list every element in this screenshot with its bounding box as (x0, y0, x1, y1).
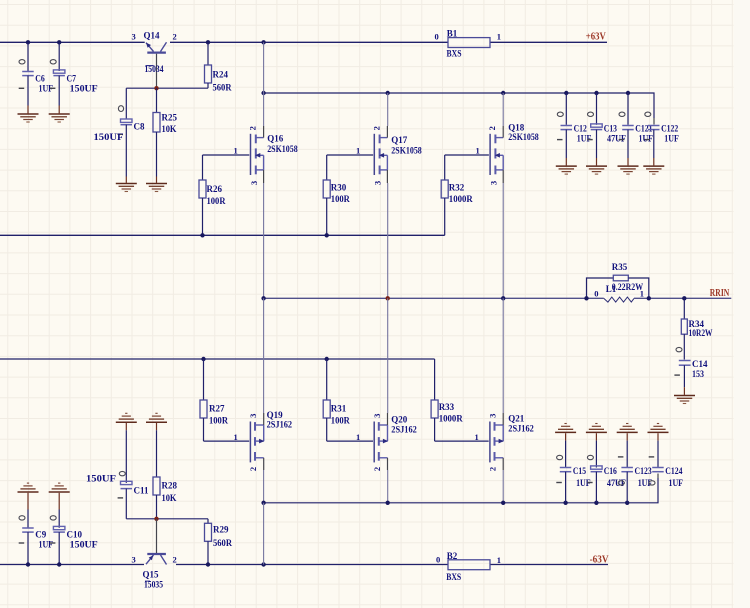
svg-text:2: 2 (173, 32, 177, 42)
svg-text:3: 3 (248, 414, 258, 418)
capacitor C7 (50, 42, 98, 105)
svg-text:C11: C11 (134, 486, 150, 496)
svg-text:3: 3 (488, 181, 498, 185)
svg-text:R24: R24 (213, 70, 229, 80)
junction R29 / bottom rail (206, 562, 210, 566)
wire output rail to Q19 source (263, 298, 265, 413)
B1 pin 0 (435, 32, 439, 42)
resistor R25 (153, 88, 177, 176)
resistor R28 (153, 430, 177, 519)
svg-text:47UF: 47UF (607, 478, 626, 488)
svg-text:Q21: Q21 (508, 414, 525, 424)
svg-text:1UF: 1UF (39, 539, 54, 549)
fuse B2 (446, 551, 490, 582)
svg-text:1000R: 1000R (449, 194, 473, 204)
ground R25 (146, 177, 167, 192)
Q18 pin 3 (488, 181, 498, 185)
ground C11 (116, 413, 137, 430)
wire Q16 source to output rail (263, 183, 265, 298)
wire bottom rail -63V right segment (490, 564, 608, 566)
svg-text:2SJ162: 2SJ162 (508, 424, 534, 434)
svg-text:100R: 100R (331, 416, 350, 426)
ground C15 (555, 424, 576, 441)
B1 pin 1 (497, 32, 501, 42)
ground C124 (648, 424, 669, 441)
junction C12 / rail (564, 91, 568, 95)
svg-text:C123: C123 (635, 466, 653, 476)
svg-text:3: 3 (249, 181, 259, 185)
svg-text:2: 2 (248, 126, 258, 130)
svg-text:1UF: 1UF (669, 478, 684, 488)
svg-text:3: 3 (372, 414, 382, 418)
capacitor C124 (649, 441, 684, 488)
svg-text:3: 3 (373, 181, 383, 185)
junction Q15 base / R28 / C11 (154, 517, 158, 521)
ground C8 (116, 177, 137, 192)
Q16 pin 1 (234, 146, 238, 156)
svg-text:R29: R29 (213, 525, 229, 535)
junction R34 / output rail (682, 296, 686, 300)
capacitor C13 (587, 93, 626, 165)
svg-text:Q14: Q14 (144, 31, 161, 41)
Q18 pin 1 (476, 146, 480, 156)
L1 pin 1 (640, 289, 644, 299)
svg-text:2SK1058: 2SK1058 (267, 144, 298, 154)
junction R30 / gate rail (325, 233, 329, 237)
svg-text:C9: C9 (35, 529, 46, 539)
wire Q17 source to output rail (387, 183, 389, 298)
svg-text:RRIN: RRIN (710, 288, 730, 299)
capacitor C123 (618, 441, 653, 503)
wire output rail to Q21 source (502, 298, 504, 413)
svg-text:R30: R30 (331, 182, 347, 192)
svg-text:560R: 560R (213, 538, 232, 548)
L1 pin 0 (594, 288, 598, 298)
wire top rail +63V middle segment (170, 41, 448, 43)
svg-text:2: 2 (488, 467, 498, 471)
svg-text:560R: 560R (213, 82, 232, 92)
MOSFET Q19 (250, 410, 292, 470)
Q19 pin 1 (234, 432, 238, 442)
ground C10 (49, 483, 70, 509)
capacitor C15 (556, 441, 591, 503)
Q20 pin 2 (372, 467, 382, 471)
svg-text:BXS: BXS (447, 49, 462, 59)
wire lower gate bias rail (0, 358, 435, 360)
wire +63V column (263, 42, 265, 93)
svg-text:1: 1 (497, 555, 501, 565)
resistor R27 (200, 359, 228, 441)
ground C13 (586, 166, 607, 174)
svg-text:C13: C13 (604, 123, 618, 133)
svg-text:47UF: 47UF (607, 133, 626, 143)
svg-text:1: 1 (234, 146, 238, 156)
ground C12 (556, 166, 577, 174)
Q17 pin 3 (373, 181, 383, 185)
Q14 pin 2 (173, 32, 177, 42)
wire +63V distribution rail (264, 93, 654, 125)
svg-text:153: 153 (692, 369, 704, 379)
resistor R32 (441, 155, 473, 235)
svg-text:2: 2 (173, 555, 177, 565)
junction C6 / top rail (26, 40, 30, 44)
capacitor C10 (50, 510, 98, 565)
ground C123 (617, 424, 638, 441)
svg-text:C14: C14 (692, 359, 708, 369)
Q20 pin 3 (372, 414, 382, 418)
junction Q18 source / output rail (501, 296, 505, 300)
svg-text:150UF: 150UF (94, 132, 125, 142)
svg-text:1UF: 1UF (638, 478, 653, 488)
Q17 pin 2 (371, 126, 381, 130)
svg-text:Q20: Q20 (391, 415, 408, 425)
svg-text:0.22R2W: 0.22R2W (612, 282, 643, 292)
resistor R24 (205, 42, 232, 92)
Q21 pin 3 (488, 414, 498, 418)
junction C9 / bottom rail (26, 562, 30, 566)
svg-text:0: 0 (435, 32, 439, 42)
Q15 pin 3 (132, 555, 136, 565)
ground C122 (643, 166, 664, 174)
svg-text:2SK1058: 2SK1058 (508, 132, 539, 142)
svg-text:1: 1 (497, 32, 501, 42)
wire Q18 source to output rail (502, 183, 504, 298)
Q19 pin 2 (248, 467, 258, 471)
junction top rail / +63V column (261, 40, 265, 44)
fuse B1 (447, 29, 491, 59)
MOSFET Q18 (490, 122, 539, 183)
junction C15 / rail (563, 501, 567, 505)
svg-text:10K: 10K (162, 124, 177, 134)
junction R35 left / output rail (584, 296, 588, 300)
svg-text:Q15: Q15 (143, 570, 160, 580)
svg-text:R32: R32 (449, 182, 465, 192)
junction -63V column / bottom rail (261, 562, 265, 566)
svg-text:2: 2 (487, 126, 497, 130)
junction C121 / rail (626, 91, 630, 95)
svg-text:C16: C16 (604, 466, 618, 476)
svg-text:C15: C15 (573, 466, 587, 476)
svg-text:0: 0 (594, 288, 598, 298)
svg-text:1: 1 (356, 146, 360, 156)
junction Q17 drain / rail (386, 91, 390, 95)
svg-text:2: 2 (372, 467, 382, 471)
resistor R35 (587, 262, 649, 298)
capacitor C9 (19, 510, 54, 565)
svg-text:1: 1 (356, 432, 360, 442)
junction R24 / top rail (206, 40, 210, 44)
svg-text:Q17: Q17 (391, 135, 408, 145)
svg-text:1UF: 1UF (664, 133, 679, 143)
Q16 pin 3 (249, 181, 259, 185)
resistor R33 (431, 359, 463, 441)
wire upper gate bias rail (0, 234, 445, 236)
ground R28 (146, 413, 167, 430)
junction Q19 drain / rail (261, 501, 265, 505)
junction Q20 drain / rail (386, 501, 390, 505)
svg-text:Q18: Q18 (508, 122, 525, 132)
ground C7 (49, 106, 70, 123)
junction R35 right / output rail (647, 296, 651, 300)
ground C16 (586, 424, 607, 441)
svg-text:150UF: 150UF (86, 474, 117, 484)
svg-text:C8: C8 (134, 122, 145, 132)
svg-text:B2: B2 (447, 551, 458, 561)
svg-text:1000R: 1000R (439, 414, 463, 424)
power net label -63V (590, 555, 610, 566)
svg-text:0: 0 (436, 554, 440, 564)
svg-text:C7: C7 (67, 74, 77, 84)
wire Q18 drain to rail (502, 93, 504, 126)
svg-text:10R2W: 10R2W (689, 328, 713, 338)
svg-text:2: 2 (371, 126, 381, 130)
svg-text:2: 2 (248, 467, 258, 471)
power net label +63V (586, 32, 607, 43)
wire output rail right segment (634, 297, 731, 299)
wire R30 to Q17 gate (327, 154, 373, 156)
svg-text:2SJ162: 2SJ162 (267, 419, 293, 429)
capacitor C16 (587, 441, 626, 503)
B2 pin 1 (497, 555, 501, 565)
junction Q18 drain / rail (501, 91, 505, 95)
capacitor C8 (94, 88, 145, 176)
svg-text:C12: C12 (574, 123, 588, 133)
svg-text:R28: R28 (162, 481, 178, 491)
Q21 pin 2 (488, 467, 498, 471)
transistor Q14 (144, 31, 167, 89)
B2 pin 0 (436, 554, 440, 564)
wire Q19 drain to -63V rail (263, 470, 265, 503)
svg-text:R31: R31 (331, 403, 347, 413)
net label RRIN (710, 288, 730, 299)
svg-text:10K: 10K (162, 493, 177, 503)
inductor L1 (604, 284, 634, 302)
wire Q15 base node (126, 518, 208, 520)
wire output rail to Q20 source (387, 298, 389, 413)
junction C123 / rail (625, 501, 629, 505)
wire -63V column (263, 503, 265, 565)
wire top rail +63V right segment (490, 41, 607, 43)
resistor R30 (323, 155, 350, 235)
svg-text:3: 3 (132, 32, 136, 42)
wire R31 to Q20 gate (327, 440, 373, 442)
Q18 pin 2 (487, 126, 497, 130)
svg-text:1: 1 (475, 432, 479, 442)
svg-text:3: 3 (132, 555, 136, 565)
svg-text:150UF: 150UF (70, 83, 99, 93)
svg-text:C10: C10 (67, 529, 83, 539)
wire R32 to Q18 gate (445, 154, 489, 156)
wire Q14 base node (126, 87, 208, 89)
Q14 pin 3 (132, 32, 136, 42)
wire Q17 drain to rail (387, 93, 389, 126)
svg-text:2SJ162: 2SJ162 (391, 425, 417, 435)
Q20 pin 1 (356, 432, 360, 442)
capacitor C11 (86, 430, 149, 519)
wire top rail +63V left segment (0, 41, 145, 43)
capacitor C14 (674, 347, 708, 387)
svg-text:R27: R27 (209, 403, 225, 413)
resistor R26 (199, 155, 226, 235)
junction R31 / gate rail (325, 357, 329, 361)
junction R27 / gate rail (201, 357, 205, 361)
ground C9 (18, 483, 39, 509)
ground C121 (618, 166, 639, 174)
transistor Q15 (143, 519, 167, 590)
svg-text:2SK1058: 2SK1058 (391, 145, 422, 155)
svg-text:C122: C122 (661, 123, 679, 133)
wire R27 to Q19 gate (204, 440, 250, 442)
svg-text:3: 3 (488, 414, 498, 418)
Q19 pin 3 (248, 414, 258, 418)
capacitor C12 (557, 93, 592, 165)
MOSFET Q20 (374, 413, 417, 470)
junction Q21 drain / rail (501, 501, 505, 505)
svg-text:Q16: Q16 (267, 133, 284, 143)
junction C7 / top rail (57, 40, 61, 44)
Q15 pin 2 (173, 555, 177, 565)
svg-text:1UF: 1UF (639, 133, 654, 143)
svg-text:100R: 100R (209, 416, 228, 426)
svg-text:100R: 100R (331, 194, 350, 204)
Q16 pin 2 (248, 126, 258, 130)
capacitor C121 (619, 93, 654, 165)
junction Q17 source / output rail (386, 296, 390, 300)
wire bottom rail -63V left segment (0, 564, 144, 566)
junction C10 / bottom rail (57, 562, 61, 566)
capacitor C6 (19, 42, 54, 105)
MOSFET Q16 (251, 126, 299, 183)
MOSFET Q17 (374, 126, 422, 183)
Q17 pin 1 (356, 146, 360, 156)
MOSFET Q21 (490, 413, 534, 470)
wire R33 to Q21 gate (435, 440, 489, 442)
Q21 pin 1 (475, 432, 479, 442)
svg-text:+63V: +63V (586, 32, 607, 43)
svg-text:150UF: 150UF (70, 539, 99, 549)
wire bottom rail -63V middle segment (176, 564, 448, 566)
resistor R29 (205, 519, 233, 565)
wire Q21 drain to -63V rail (502, 470, 504, 503)
svg-text:1UF: 1UF (577, 133, 592, 143)
svg-text:1: 1 (234, 432, 238, 442)
svg-text:C6: C6 (35, 74, 45, 84)
junction Q14 base / R25 / C8 (154, 86, 158, 90)
wire Q20 drain to -63V rail (387, 470, 389, 503)
wire -63V distribution rail (264, 474, 658, 503)
svg-text:C124: C124 (665, 466, 683, 476)
svg-text:R25: R25 (162, 113, 178, 123)
capacitor C122 (645, 112, 680, 165)
svg-text:100R: 100R (207, 196, 226, 206)
junction Q16 source / output rail (261, 296, 265, 300)
resistor R31 (323, 359, 350, 441)
svg-text:1: 1 (476, 146, 480, 156)
svg-text:BXS: BXS (446, 572, 461, 582)
svg-text:R33: R33 (439, 402, 455, 412)
wire Q16 drain to rail (263, 93, 265, 126)
junction R26 / gate rail (200, 233, 204, 237)
ground C14 (674, 387, 695, 403)
junction C13 / rail (594, 91, 598, 95)
svg-text:B1: B1 (447, 29, 458, 39)
svg-text:-63V: -63V (590, 555, 610, 566)
junction +63V column / rail (261, 91, 265, 95)
ground C6 (18, 106, 39, 123)
svg-text:R26: R26 (207, 184, 223, 194)
junction C16 / rail (594, 501, 598, 505)
resistor R34 (681, 298, 712, 359)
wire R26 to Q16 gate (203, 154, 250, 156)
wire output rail left segment (264, 297, 604, 299)
svg-text:R35: R35 (612, 262, 628, 272)
